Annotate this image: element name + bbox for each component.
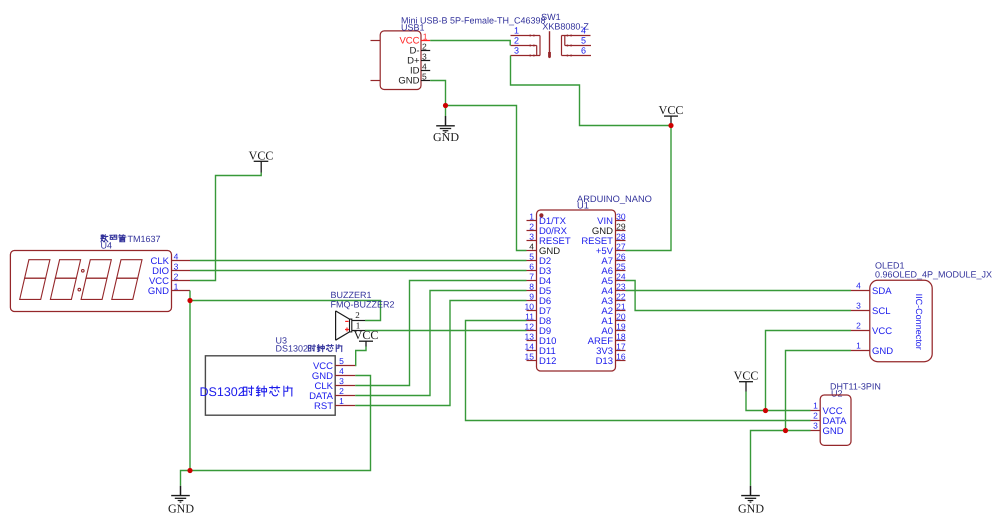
svg-text:2: 2: [355, 310, 360, 320]
svg-text:SCL: SCL: [872, 306, 890, 317]
wire U2 GND pin3 to ground symbol: [751, 431, 811, 486]
U3 pin 4 GND: [312, 366, 355, 382]
U1 pin 29 GND: [592, 222, 626, 237]
U3 pin 5 VCC: [313, 356, 355, 372]
U1 pin 4 GND: [527, 242, 561, 257]
wire U4 CLK to U1 D2: [190, 260, 527, 262]
wire U3 CLK to U1 D4: [355, 281, 526, 386]
U1 pin 22 A3: [601, 292, 625, 307]
svg-text:U4: U4: [101, 240, 113, 250]
sensor U2 DHT11-3PIN labels: [830, 382, 881, 399]
svg-text:4: 4: [339, 366, 344, 376]
svg-text:IIC-Connector: IIC-Connector: [914, 294, 924, 350]
wire OLED1 VCC down to VCC node at U2: [766, 331, 852, 411]
buzzer BUZZER1 FMQ-BUZZER2 labels: [331, 290, 395, 309]
svg-text:4: 4: [422, 62, 427, 72]
wire VCC node down to U1 +5V pin 27: [626, 126, 672, 251]
ground symbol GND (under USB1): [433, 106, 459, 145]
svg-text:VCC: VCC: [872, 326, 892, 337]
U1 pin 3 RESET: [527, 232, 571, 247]
U1 pin 24 A5: [601, 272, 625, 287]
svg-text:3: 3: [422, 52, 427, 62]
svg-text:1: 1: [529, 212, 534, 222]
U4 pin 4 CLK: [151, 251, 190, 267]
svg-text:24: 24: [616, 272, 626, 282]
U1 pin 9 D6: [527, 292, 552, 307]
svg-text:1: 1: [339, 396, 344, 406]
svg-text:2: 2: [174, 271, 179, 281]
power flag VCC (top left): [249, 149, 274, 173]
svg-text:15: 15: [525, 352, 535, 362]
sensor U2 DHT11 body: [820, 395, 851, 445]
OLED1 pin 4 SDA: [851, 281, 892, 297]
svg-text:18: 18: [616, 332, 626, 342]
svg-text:TM1637: TM1637: [128, 234, 161, 244]
svg-text:5: 5: [339, 356, 344, 366]
U3 pin 3 CLK: [315, 376, 356, 392]
svg-text:USB1: USB1: [401, 22, 425, 32]
svg-text:GND: GND: [168, 502, 194, 516]
U1 pin 12 D9: [525, 322, 552, 337]
svg-text:29: 29: [616, 222, 626, 232]
svg-text:4: 4: [529, 242, 534, 252]
junction ground rail / buzzer: [187, 298, 192, 303]
U3 big value text DS1302 clock chip: [200, 385, 293, 399]
svg-text:U1: U1: [577, 200, 589, 210]
svg-text:8: 8: [529, 282, 534, 292]
junction bottom-left ground node: [187, 468, 192, 473]
svg-text:DS1302: DS1302: [200, 385, 245, 399]
U4 pin 3 DIO: [152, 261, 190, 277]
U2 pin 3 GND: [811, 421, 844, 437]
switch SW1 XKB8080-Z labels: [541, 12, 589, 32]
svg-text:1: 1: [514, 26, 519, 36]
svg-text:19: 19: [616, 322, 626, 332]
svg-text:5: 5: [529, 252, 534, 262]
svg-text:2: 2: [813, 411, 818, 421]
USB1 pin 1 VCC (highlighted red): [399, 32, 430, 47]
U2 pin 1 VCC: [811, 401, 843, 417]
display U4 TM1637 labels (CJK + TM1637): [101, 234, 161, 251]
wire ground rail to U3 GND (bottom horizontal): [190, 376, 371, 471]
U4 pin 2 VCC: [149, 271, 190, 287]
wire buzzer positive to U1 D9: [365, 330, 527, 332]
buzzer pin 1 (positive): [352, 321, 365, 331]
junction at VCC node (top): [668, 123, 673, 128]
OLED1 pin 2 VCC: [851, 321, 892, 337]
U1 pin 16 D13: [596, 352, 626, 367]
svg-text:3: 3: [514, 46, 519, 56]
USB1 pin 4 ID: [410, 62, 430, 77]
U1 pin 14 D11: [525, 342, 556, 357]
svg-text:GND: GND: [823, 426, 844, 437]
buzzer pin 2 (negative): [352, 310, 365, 321]
wire U4 DIO to U1 D3: [190, 270, 527, 272]
U1 pin 5 D2: [527, 252, 552, 267]
svg-text:VCC: VCC: [354, 328, 379, 342]
wire USB1 GND pin5 to ground junction: [430, 81, 445, 106]
U1 pin 26 A7: [601, 252, 625, 267]
svg-text:22: 22: [616, 292, 626, 302]
svg-text:3: 3: [856, 301, 861, 311]
svg-text:3: 3: [813, 421, 818, 431]
svg-text:SDA: SDA: [872, 286, 892, 297]
svg-text:3: 3: [339, 376, 344, 386]
svg-text:2: 2: [529, 222, 534, 232]
U1 pin 21 A2: [601, 302, 625, 317]
svg-text:U2: U2: [831, 388, 843, 398]
svg-text:13: 13: [525, 332, 535, 342]
svg-text:D13: D13: [596, 356, 613, 367]
wire USB1 VCC pin1 to SW1 pin2: [430, 41, 510, 46]
svg-text:21: 21: [616, 302, 626, 312]
svg-text:27: 27: [616, 242, 626, 252]
svg-text:GND: GND: [872, 346, 893, 357]
wire OLED1 GND down to ground node at U2: [786, 351, 852, 431]
U1 pin 1 D1/TX: [527, 212, 567, 227]
wire VCC flag to U2 VCC pin1: [746, 392, 811, 411]
SW1 pin numbers 1,2,3: [514, 26, 519, 56]
U1 pin 28 RESET: [581, 232, 626, 247]
OLED1 pin 3 SCL: [851, 301, 890, 317]
wire U4 VCC to VCC power flag: [190, 173, 261, 281]
U4 pin 1 GND: [148, 281, 190, 297]
ground symbol GND (bottom left): [168, 486, 194, 516]
svg-text:VCC: VCC: [659, 103, 684, 117]
wire U4 GND down left ground rail: [189, 291, 191, 471]
svg-text:3: 3: [529, 232, 534, 242]
U1 pin 2 D0/RX: [527, 222, 568, 237]
power flag VCC (at DHT11): [734, 369, 759, 392]
svg-text:30: 30: [616, 212, 626, 222]
U1 pin 7 D4: [527, 272, 552, 287]
svg-text:D12: D12: [539, 356, 556, 367]
SW1 pin numbers 4,5,6: [581, 26, 586, 56]
U1 pin 27 +5V: [596, 242, 626, 257]
U1 pin 25 A6: [601, 262, 625, 277]
svg-text:25: 25: [616, 262, 626, 272]
junction VCC node at U2: [763, 408, 768, 413]
svg-text:GND: GND: [738, 502, 764, 516]
svg-text:28: 28: [616, 232, 626, 242]
svg-text:GND: GND: [148, 286, 169, 297]
wire U3 VCC to VCC power flag (buzzer area): [355, 347, 366, 366]
display U4 TM1637 body (4-digit 7-segment): [10, 251, 171, 312]
svg-text:1: 1: [423, 32, 428, 42]
USB1 left shield pin stubs: [371, 41, 381, 81]
wire SW1 pin3 to VCC power node: [511, 56, 672, 126]
svg-text:DS1302: DS1302: [276, 344, 309, 354]
svg-text:GND: GND: [433, 130, 459, 144]
connector USB1 Mini USB-B 5P-Female-TH_C46398: [380, 31, 421, 90]
svg-text:5: 5: [581, 36, 586, 46]
wire ground rail to GND symbol: [181, 471, 191, 486]
svg-text:17: 17: [616, 342, 626, 352]
svg-text:4: 4: [174, 251, 179, 261]
U1 pin 19 A0: [601, 322, 625, 337]
svg-text:4: 4: [581, 26, 586, 36]
svg-text:7: 7: [529, 272, 534, 282]
RTC U3 DS1302 body: [205, 356, 335, 415]
svg-text:3: 3: [174, 261, 179, 271]
USB1 pin 5 GND: [398, 72, 430, 87]
wire ground junction to U1 GND pin 4: [446, 106, 527, 251]
U1 pin 18 AREF: [588, 332, 626, 347]
svg-text:0.96OLED_4P_MODULE_JX: 0.96OLED_4P_MODULE_JX: [875, 270, 992, 280]
MCU U1 ARDUINO_NANO labels: [577, 194, 652, 211]
buzzer BUZZER1 body: [336, 311, 352, 340]
OLED1 0.96OLED_4P_MODULE_JX labels: [875, 261, 992, 280]
U1 pin 11 D8: [525, 312, 551, 327]
U1 pin 30 VIN: [597, 212, 626, 227]
svg-text:6: 6: [581, 46, 586, 56]
MCU U1 ARDUINO_NANO body: [537, 210, 616, 371]
svg-text:16: 16: [616, 352, 626, 362]
svg-text:2: 2: [514, 36, 519, 46]
svg-text:26: 26: [616, 252, 626, 262]
U1 pin 20 A1: [601, 312, 625, 327]
svg-text:10: 10: [525, 302, 535, 312]
wire buzzer negative to ground rail: [190, 301, 381, 321]
U1 pin 10 D7: [525, 302, 552, 317]
svg-text:2: 2: [422, 42, 427, 52]
svg-text:VCC: VCC: [734, 369, 759, 383]
OLED1 pin 1 GND: [851, 341, 893, 357]
OLED1 body: [870, 280, 932, 361]
wire U3 DATA to U1 D5: [355, 291, 526, 396]
svg-text:6: 6: [529, 262, 534, 272]
U1 pin 17 3V3: [596, 342, 626, 357]
USB1 pin 2 D-: [409, 42, 430, 57]
svg-text:14: 14: [525, 342, 535, 352]
U1 pin 13 D10: [525, 332, 557, 347]
wire U3 RST to U1 D6: [355, 301, 526, 406]
wire U1 D8 to U2 DATA: [466, 321, 811, 421]
svg-text:1: 1: [813, 401, 818, 411]
svg-text:20: 20: [616, 312, 626, 322]
USB1 pin 3 D+: [407, 52, 430, 67]
wire U1 A4 to OLED1 SDA: [626, 290, 852, 292]
U3 pin 2 DATA: [309, 386, 355, 402]
ground symbol GND (bottom right): [738, 486, 764, 516]
RTC U3 DS1302 labels: [276, 336, 343, 354]
svg-text:1: 1: [856, 341, 861, 351]
switch SW1 body: [511, 31, 592, 58]
svg-text:GND: GND: [398, 76, 419, 87]
U1 pin 8 D5: [527, 282, 552, 297]
U1 pin 6 D3: [527, 262, 552, 277]
svg-text:SW1: SW1: [541, 12, 561, 22]
svg-text:VCC: VCC: [249, 149, 274, 163]
svg-text:23: 23: [616, 282, 626, 292]
USB1 reference designator labels: [401, 16, 546, 33]
svg-text:1: 1: [174, 281, 179, 291]
svg-text:5: 5: [422, 72, 427, 82]
svg-text:4: 4: [856, 281, 861, 291]
junction ground node at U2: [783, 428, 788, 433]
power flag VCC (at DS1302): [354, 328, 379, 346]
junction at USB GND node: [443, 103, 448, 108]
U1 pin 15 D12: [525, 352, 557, 367]
svg-text:2: 2: [339, 386, 344, 396]
svg-text:2: 2: [856, 321, 861, 331]
U3 pin 1 RST: [314, 396, 355, 412]
wire U1 A5 to OLED1 SCL: [626, 281, 852, 311]
svg-text:RST: RST: [314, 401, 333, 412]
svg-text:9: 9: [529, 292, 534, 302]
power flag VCC (top middle): [659, 103, 684, 126]
svg-text:FMQ-BUZZER2: FMQ-BUZZER2: [331, 299, 395, 309]
svg-text:11: 11: [525, 312, 534, 322]
U1 pin 23 A4: [601, 282, 625, 297]
U2 pin 2 DATA: [811, 411, 848, 427]
